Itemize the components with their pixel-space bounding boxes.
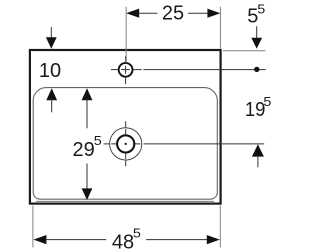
washbasin outer rim bbox=[30, 50, 221, 204]
dim 5.5: dot on faucet centerline bbox=[254, 67, 259, 72]
dim 48.5: line right segment bbox=[146, 239, 208, 241]
svg-text:48: 48 bbox=[112, 231, 134, 250]
dim 10: down arrow stem bbox=[50, 27, 52, 39]
dim 48.5: left extension line bbox=[32, 206, 34, 248]
dim 25: line left segment bbox=[139, 12, 158, 14]
dim 48.5: right extension line bbox=[219, 206, 221, 248]
dim 19.5: arrow stem bbox=[257, 156, 259, 167]
dim 25: left arrow bbox=[126, 9, 139, 18]
faucet hole bbox=[119, 63, 133, 77]
svg-text:29: 29 bbox=[73, 139, 95, 161]
dim 25: line right segment bbox=[188, 12, 208, 14]
drain center dot bbox=[125, 143, 127, 145]
svg-text:25: 25 bbox=[162, 3, 184, 25]
svg-text:19: 19 bbox=[245, 99, 266, 121]
svg-text:5: 5 bbox=[133, 226, 141, 241]
dim 48.5: line left segment bbox=[46, 239, 106, 241]
svg-text:5: 5 bbox=[263, 94, 271, 109]
drain hole outer circle bbox=[110, 128, 142, 160]
svg-text:5: 5 bbox=[257, 2, 265, 17]
dim 19.5: up arrow onto drain centerline bbox=[252, 144, 264, 156]
drain horizontal centerline extending right bbox=[104, 143, 265, 145]
dim 29.5: upper stem bbox=[86, 99, 88, 129]
faucet hole horizontal centerline bbox=[111, 69, 266, 71]
faucet hole vertical centerline bbox=[125, 56, 127, 84]
basin bowl outline bbox=[33, 88, 217, 200]
svg-text:10: 10 bbox=[39, 60, 61, 82]
dim 10: down arrow onto rim bbox=[46, 37, 57, 49]
dim 29.5: lower stem bbox=[86, 164, 88, 191]
dim 25: right extension line bbox=[219, 7, 221, 49]
dim 25: left extension line bbox=[125, 7, 127, 63]
dim 48.5: right arrow bbox=[207, 235, 220, 244]
dim 29.5: down arrow onto bottom edge bbox=[82, 188, 93, 200]
dim 10: up arrow onto bowl edge bbox=[46, 88, 57, 100]
drain hole inner circle bbox=[117, 135, 134, 152]
basin bottom inner edge line bbox=[36, 200, 214, 202]
dim 25: right arrow bbox=[207, 9, 220, 18]
dim 29.5: up arrow onto bowl edge bbox=[82, 88, 93, 100]
dim 5.5: top edge extension line bbox=[223, 50, 266, 52]
dim 10: up arrow stem bbox=[51, 99, 53, 113]
drain vertical centerline bbox=[125, 121, 127, 166]
dim 5.5: down arrow stem bbox=[256, 26, 258, 38]
dim 5.5: down arrow bbox=[251, 38, 262, 49]
dim 48.5: left arrow bbox=[33, 235, 46, 244]
svg-text:5: 5 bbox=[94, 133, 102, 148]
